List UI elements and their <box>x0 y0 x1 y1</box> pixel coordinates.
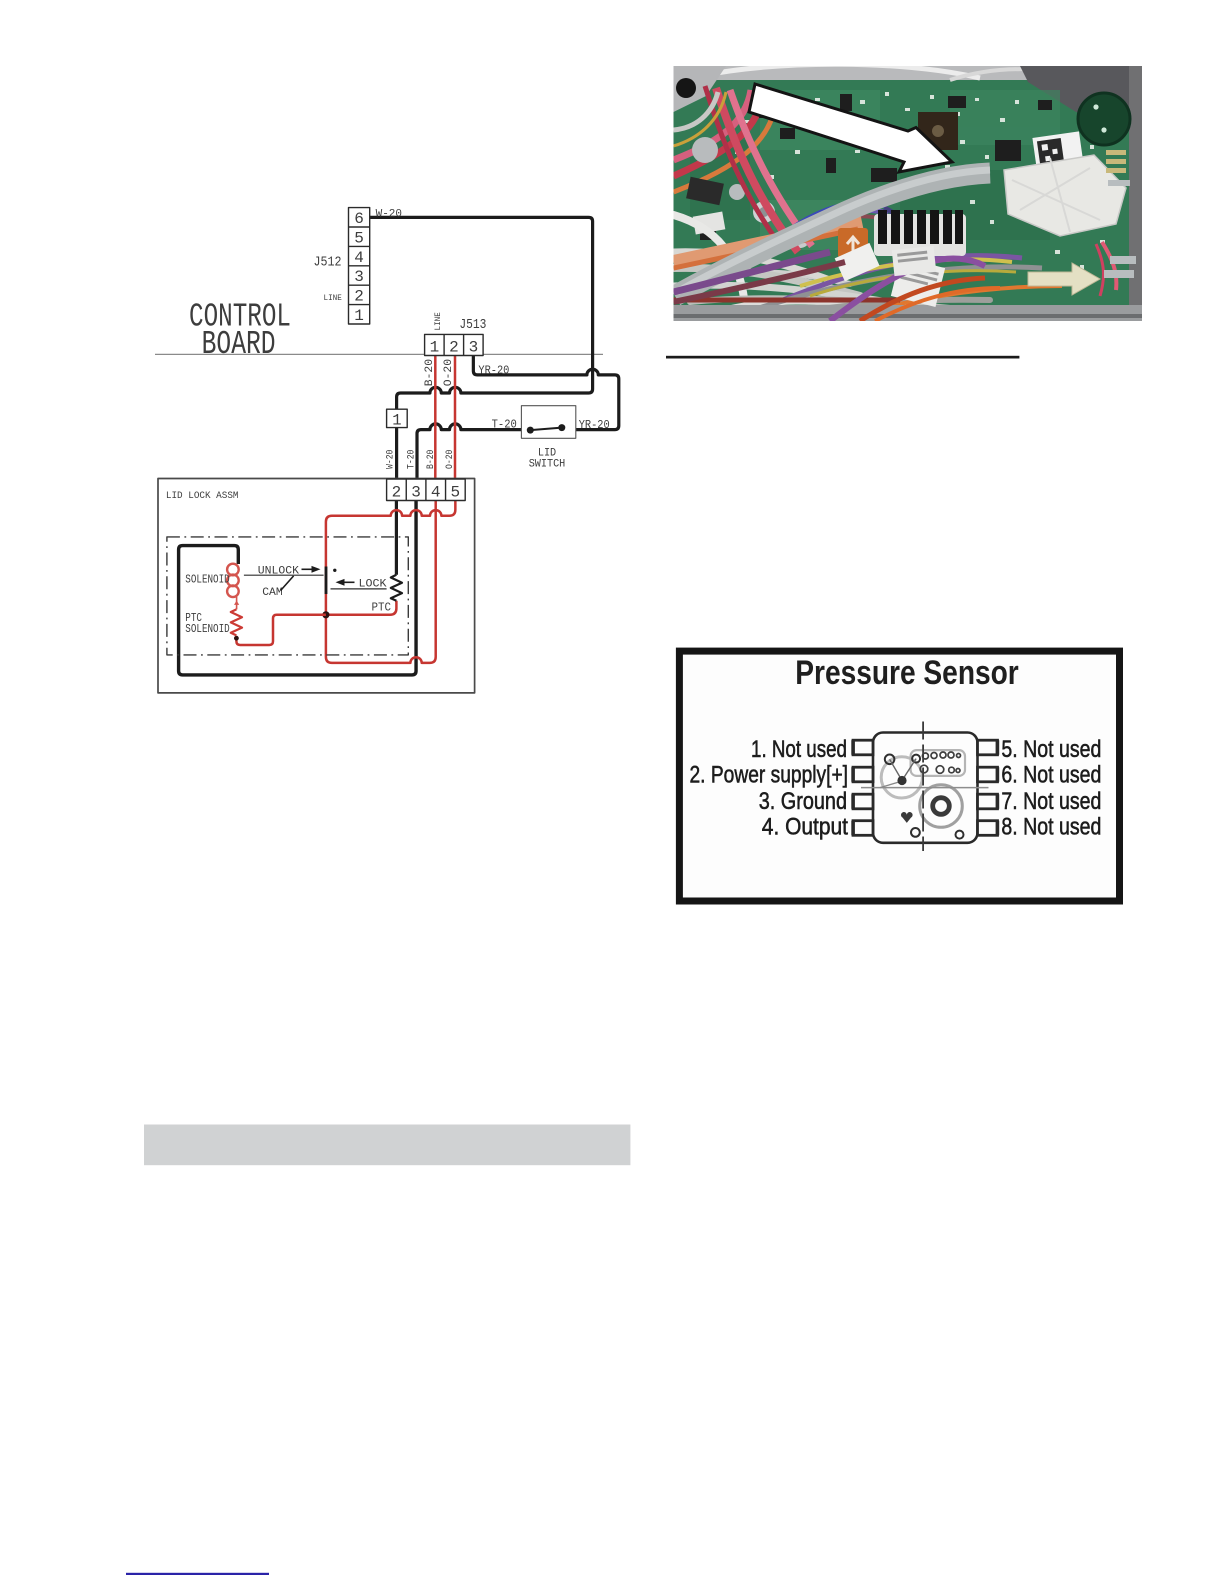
dark green circle top right <box>1078 93 1130 145</box>
lid switch box <box>521 406 575 439</box>
sensor detail circles row2 <box>920 765 960 773</box>
label LID LOCK ASSM <box>166 490 239 502</box>
label LID SWITCH <box>529 448 566 471</box>
resistor PTC solenoid <box>231 609 242 635</box>
connector lid lock pin numbers <box>392 484 461 502</box>
pin label 5-8 <box>1001 736 1101 840</box>
sensor U1 chip body <box>873 733 978 843</box>
cam switch pole <box>325 567 328 595</box>
svg-text:Pressure Sensor: Pressure Sensor <box>795 654 1019 692</box>
wire W-20 (J512-6 to lid lock pin 2) <box>370 217 593 574</box>
bottom chassis <box>674 305 1143 321</box>
svg-text:SOLENOID: SOLENOID <box>185 574 229 587</box>
svg-text:3: 3 <box>469 339 479 357</box>
lid switch contacts and blade <box>527 424 566 434</box>
svg-text:LINE: LINE <box>433 312 443 330</box>
silver arrow bottom right <box>1028 263 1100 295</box>
sensor gear circle <box>881 757 922 798</box>
label LOCK with arrow <box>336 579 387 591</box>
svg-text:5: 5 <box>451 484 461 502</box>
sensor centerline vertical <box>922 722 924 852</box>
svg-text:B-20: B-20 <box>424 359 436 387</box>
svg-text:J512: J512 <box>314 255 342 271</box>
connector lid lock 2345 <box>387 479 466 501</box>
svg-text:O-20: O-20 <box>444 450 456 469</box>
svg-text:4. Output: 4. Output <box>762 814 848 841</box>
svg-text:4: 4 <box>354 249 364 267</box>
label O-20 (J513-2 wire, rotated) <box>443 359 455 387</box>
QR label <box>1032 131 1085 181</box>
sensor detail marks <box>880 755 964 839</box>
svg-text:5: 5 <box>354 229 364 247</box>
label T-20 (pin3 wire, rotated) <box>405 450 417 469</box>
gray ribbon <box>675 173 990 296</box>
junction node (red net) <box>322 611 329 618</box>
svg-text:1: 1 <box>354 307 364 325</box>
orange band <box>674 222 863 262</box>
svg-text:LINE: LINE <box>324 293 342 303</box>
pin 5 <box>978 740 1000 755</box>
connector J513 pin numbers <box>430 339 479 357</box>
title Pressure Sensor <box>795 654 1019 692</box>
svg-text:LID LOCK ASSM: LID LOCK ASSM <box>166 490 239 502</box>
long purple and gray wires <box>735 256 1022 321</box>
svg-text:2: 2 <box>392 484 402 502</box>
svg-text:5. Not used: 5. Not used <box>1001 736 1101 763</box>
wire O-20 (J513-2 to lid lock pin 5) <box>454 356 457 480</box>
svg-text:SOLENOID: SOLENOID <box>185 623 229 636</box>
sensor port circle <box>920 785 963 828</box>
white solder pads speckle <box>720 92 1105 269</box>
wire T-20 loop (pin 3 to solenoid) <box>179 501 416 675</box>
svg-text:B-20: B-20 <box>425 450 437 469</box>
svg-text:CAM: CAM <box>262 587 283 599</box>
pin 2 <box>851 767 873 782</box>
svg-text:2: 2 <box>354 288 364 306</box>
gold connector fingers right <box>1106 150 1126 173</box>
label LINE (J513-1, rotated) <box>433 312 443 330</box>
capacitors <box>753 201 775 223</box>
label SOLENOID <box>185 574 229 587</box>
inline connector box 1 <box>387 409 408 427</box>
pin 8 <box>978 821 1000 836</box>
wire YR-20 (J513-3 to lid switch) <box>473 356 618 430</box>
connector J512 pin numbers <box>354 210 364 325</box>
svg-text:W-20: W-20 <box>376 209 402 221</box>
svg-text:O-20: O-20 <box>443 359 455 387</box>
control board boundary line <box>155 353 603 355</box>
label CAM with pointer <box>262 576 293 599</box>
label J512 <box>314 255 342 271</box>
label O-20 (pin5 wire, rotated) <box>444 450 456 469</box>
wire cam switch lock contact <box>331 588 387 590</box>
extra lower-left bundle <box>674 252 831 292</box>
label PTC (resistor) <box>372 601 392 615</box>
blue purple bundle <box>748 203 910 268</box>
heatsink comb <box>874 214 966 256</box>
white cables <box>674 215 1021 321</box>
wire T-20 (lid switch to lid lock pin 3) <box>417 424 529 479</box>
pin 1 <box>851 740 873 755</box>
label W-20 (pin2 wire, rotated) <box>385 450 397 469</box>
label PTC SOLENOID <box>185 612 229 636</box>
svg-text:3. Ground: 3. Ground <box>759 788 847 815</box>
svg-text:8. Not used: 8. Not used <box>1001 814 1101 841</box>
pin 4 <box>851 821 873 836</box>
IC with cross <box>918 112 958 150</box>
white label small <box>835 243 880 281</box>
pin 6 <box>978 767 1000 782</box>
pin label 1 <box>690 736 849 840</box>
svg-text:PTC: PTC <box>372 601 392 615</box>
svg-text:2: 2 <box>449 339 459 357</box>
big white arrow <box>749 84 952 172</box>
svg-text:7. Not used: 7. Not used <box>1001 788 1101 815</box>
sensor detail circles row1 <box>922 752 960 759</box>
connector J512 <box>349 208 370 324</box>
red net inside lid lock (pin5 - junction - pin4) <box>326 501 455 663</box>
cam switch contact dot <box>333 569 336 572</box>
pin 3 <box>851 794 873 809</box>
label B-20 (pin4 wire, rotated) <box>425 450 437 469</box>
orange connector <box>838 228 868 258</box>
wire PTC solenoid to junction <box>236 615 326 645</box>
photo background board <box>674 66 1143 321</box>
pin 7 <box>978 794 1000 809</box>
svg-text:LOCK: LOCK <box>359 579 387 591</box>
svg-text:T-20: T-20 <box>405 450 417 469</box>
crumpled label <box>1004 155 1126 236</box>
wire solenoid to PTC solenoid <box>234 597 239 609</box>
resistor PTC <box>391 575 402 601</box>
control board label <box>189 299 291 364</box>
svg-text:4: 4 <box>431 484 441 502</box>
yellow wires <box>800 259 1012 286</box>
svg-text:3: 3 <box>411 484 421 502</box>
svg-text:1: 1 <box>392 412 401 430</box>
dark components <box>700 94 1052 240</box>
wire B-20 (J513-1 to lid lock pin 4) <box>434 356 437 480</box>
label UNLOCK with arrow <box>258 566 321 578</box>
pink wires right <box>1102 242 1116 290</box>
inline connector box 1 number <box>392 412 401 430</box>
junction node (PTC solenoid bottom) <box>234 636 239 641</box>
solenoid L1 coil <box>227 564 239 597</box>
svg-text:2. Power supply[+]: 2. Power supply[+] <box>690 762 849 789</box>
svg-text:BOARD: BOARD <box>202 326 276 363</box>
label T-20 (lid switch) <box>492 418 517 432</box>
label B-20 (J513-1 wire, rotated) <box>424 359 436 387</box>
label YR-20 (J513-3 wire) <box>478 364 509 378</box>
label LINE (J512-2) <box>324 293 342 303</box>
svg-text:YR-20: YR-20 <box>579 418 610 432</box>
svg-text:SWITCH: SWITCH <box>529 459 566 471</box>
svg-text:J513: J513 <box>459 317 486 333</box>
svg-text:6: 6 <box>354 210 364 228</box>
sensor pad outline <box>911 750 965 776</box>
svg-text:1: 1 <box>430 339 440 357</box>
label W-20 (J512-6 wire) <box>376 209 402 221</box>
svg-text:T-20: T-20 <box>492 418 517 432</box>
svg-text:3: 3 <box>354 268 364 286</box>
label J513 <box>459 317 486 333</box>
lid lock assembly box <box>158 479 475 693</box>
connector J513 <box>425 334 484 355</box>
pressure sensor outer box <box>679 651 1119 901</box>
svg-text:6. Not used: 6. Not used <box>1001 762 1101 789</box>
svg-text:W-20: W-20 <box>385 450 397 469</box>
left wire bundle pink/red <box>674 86 813 252</box>
label YR-20 (lid switch) <box>579 418 610 432</box>
lid lock inner dashed enclosure <box>167 537 408 655</box>
sensor centerline horizontal <box>861 787 989 789</box>
board texture patches <box>690 90 1060 250</box>
wire solenoid to cam switch <box>244 574 324 576</box>
svg-text:YR-20: YR-20 <box>478 364 509 378</box>
svg-text:1. Not used: 1. Not used <box>751 736 847 763</box>
